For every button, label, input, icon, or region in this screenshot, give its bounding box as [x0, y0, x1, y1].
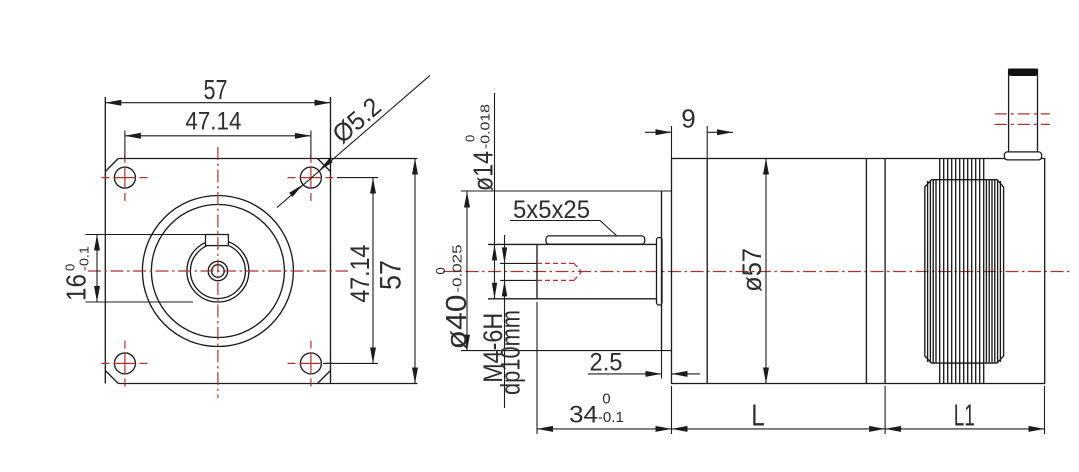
svg-text:9: 9	[681, 104, 695, 134]
svg-text:57: 57	[204, 74, 228, 105]
cable gland black cap	[1008, 69, 1038, 77]
dimension 57 top	[105, 74, 330, 105]
cable gland centerlines	[995, 113, 1050, 115]
svg-text:Ø5.2: Ø5.2	[326, 91, 387, 149]
svg-text:2.5: 2.5	[590, 349, 623, 377]
dimension 47.14 right	[323, 178, 378, 364]
FRONT VIEW	[61, 74, 431, 398]
svg-text:0: 0	[463, 135, 478, 142]
output shaft	[488, 244, 662, 298]
label 5x5x25 with leader	[510, 196, 617, 236]
svg-text:47.14: 47.14	[185, 108, 241, 136]
shaft circle outer	[187, 240, 249, 302]
pilot boss circle outer	[142, 196, 293, 347]
pilot boss	[461, 191, 672, 351]
dimension L1 bottom	[885, 398, 1044, 433]
svg-text:47.14: 47.14	[345, 245, 375, 303]
dimension 34 bottom	[537, 391, 672, 429]
svg-text:-0.025: -0.025	[450, 245, 465, 293]
SIDE VIEW	[433, 69, 1070, 435]
main centerline horizontal	[88, 270, 348, 272]
svg-text:5x5x25: 5x5x25	[513, 196, 590, 224]
svg-text:ø40: ø40	[441, 295, 473, 350]
dimension Ø14	[463, 93, 499, 299]
cable gland cylinder	[1009, 69, 1038, 152]
cable gland base flange	[1004, 152, 1041, 160]
bolt hole top-right	[300, 167, 321, 188]
bottom extension lines	[537, 302, 1045, 434]
svg-text:-0.1: -0.1	[598, 409, 624, 426]
M4 tap extension lines	[500, 262, 537, 264]
svg-text:ø14: ø14	[468, 151, 499, 191]
dimension leader Ø5.2	[277, 75, 430, 207]
M4 hidden thread red dashed	[537, 263, 582, 280]
dimension M4-6H dp10mm	[478, 235, 526, 408]
svg-text:L1: L1	[954, 398, 975, 433]
gearbox and motor body outline	[672, 159, 1045, 384]
svg-text:ø57: ø57	[737, 248, 767, 292]
dimension 47.14 top	[125, 108, 311, 159]
centerline axis	[443, 271, 1070, 273]
svg-text:-0.018: -0.018	[478, 104, 493, 149]
keyway slot	[206, 235, 229, 246]
svg-text:57: 57	[375, 260, 408, 290]
svg-text:0: 0	[433, 267, 448, 274]
key 5x5x25	[546, 236, 645, 244]
svg-text:16: 16	[61, 274, 92, 301]
dimension 16 left	[61, 235, 206, 303]
dimension 57 right	[375, 159, 416, 384]
bolt hole bottom-left	[114, 353, 135, 374]
motor lamination stack	[940, 159, 984, 384]
dimension 2.5	[588, 349, 700, 379]
svg-text:34: 34	[569, 402, 598, 429]
svg-text:L: L	[751, 398, 765, 433]
hole centermarks	[102, 155, 336, 387]
bolt hole bottom-right	[300, 353, 321, 374]
svg-text:dp10mm: dp10mm	[496, 310, 526, 395]
M4 tapped hole circles	[208, 261, 227, 280]
lamination barrel outline	[925, 180, 1004, 363]
bolt hole top-left	[114, 167, 135, 188]
pilot boss circle inner	[151, 205, 284, 338]
dimension L bottom	[672, 398, 886, 433]
dimension 9 top	[645, 104, 733, 159]
svg-text:0: 0	[63, 264, 78, 271]
shaft circle inner	[190, 244, 245, 299]
svg-text:0: 0	[602, 391, 610, 408]
flange square outline with chamfered corners	[105, 97, 417, 384]
dimension Ø40	[433, 192, 473, 351]
main centerline vertical	[217, 147, 219, 398]
shaft shoulder ring	[657, 238, 663, 306]
svg-text:-0.1: -0.1	[77, 246, 92, 271]
dimension Ø57	[737, 159, 767, 384]
